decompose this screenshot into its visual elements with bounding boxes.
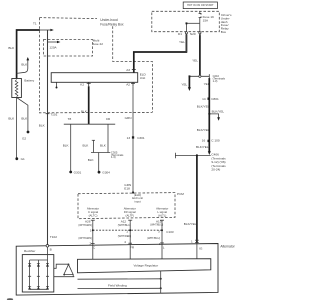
- svg-text:T101: T101: [50, 113, 57, 117]
- svg-text:Alternator: Alternator: [220, 245, 235, 249]
- svg-text:BLK: BLK: [63, 144, 70, 148]
- svg-text:IG: IG: [199, 247, 203, 251]
- svg-text:Rectifier: Rectifier: [24, 249, 35, 253]
- svg-text:1-3): 1-3): [213, 79, 218, 83]
- svg-text:G1: G1: [21, 157, 25, 161]
- svg-text:BLK/YEL: BLK/YEL: [184, 222, 197, 226]
- svg-text:16: 16: [202, 139, 206, 143]
- svg-text:(WHT/GRN): (WHT/GRN): [78, 224, 92, 227]
- svg-text:input: input: [135, 199, 141, 203]
- svg-text:G301: G301: [74, 170, 82, 174]
- svg-text:HOT IN ON OR START: HOT IN ON OR START: [187, 3, 214, 7]
- svg-text:Voltage Regulator: Voltage Regulator: [134, 263, 159, 267]
- svg-text:GRN: GRN: [125, 116, 132, 120]
- svg-text:N20: N20: [190, 32, 196, 36]
- svg-text:BLK/YEL: BLK/YEL: [197, 105, 210, 109]
- svg-text:T8: T8: [68, 117, 72, 121]
- svg-text:A2: A2: [126, 83, 130, 87]
- svg-text:BLK: BLK: [81, 109, 88, 113]
- svg-text:1: 1: [191, 239, 193, 243]
- svg-text:L: L: [163, 246, 165, 250]
- svg-text:T102: T102: [50, 235, 57, 239]
- svg-text:Field Winding: Field Winding: [108, 283, 127, 287]
- svg-text:G304: G304: [102, 171, 110, 175]
- svg-text:13: 13: [127, 136, 131, 140]
- svg-text:3: 3: [158, 229, 160, 233]
- svg-text:C301: C301: [137, 136, 145, 140]
- svg-text:(ALTC): (ALTC): [89, 213, 98, 217]
- svg-text:(WHT/GRN): (WHT/GRN): [78, 237, 92, 240]
- svg-text:(ALTF): (ALTF): [126, 213, 135, 217]
- svg-text:D1: D1: [178, 32, 182, 36]
- svg-text:C103: C103: [166, 230, 174, 234]
- svg-text:YEL: YEL: [181, 82, 187, 86]
- svg-text:Battery: Battery: [24, 79, 34, 83]
- svg-text:2: 2: [127, 229, 129, 233]
- svg-text:T1: T1: [33, 21, 37, 25]
- svg-text:BLK: BLK: [21, 117, 28, 121]
- svg-text:G2: G2: [22, 136, 26, 140]
- svg-text:(WHT/BLU): (WHT/BLU): [118, 224, 131, 227]
- svg-text:Box: Box: [221, 30, 227, 34]
- svg-text:C 100: C 100: [211, 139, 220, 143]
- svg-text:Unit: Unit: [140, 76, 146, 80]
- svg-text:BLK: BLK: [8, 117, 15, 121]
- svg-text:(WHT/BLU): (WHT/BLU): [150, 223, 163, 226]
- svg-text:120A: 120A: [49, 45, 57, 49]
- svg-text:PCM: PCM: [177, 192, 184, 196]
- svg-text:4: 4: [124, 240, 126, 244]
- svg-text:YEL: YEL: [192, 58, 198, 62]
- svg-text:1-3): 1-3): [111, 155, 116, 159]
- svg-text:YEL: YEL: [179, 40, 185, 44]
- svg-text:15A: 15A: [203, 18, 209, 22]
- svg-text:B: B: [50, 247, 52, 251]
- svg-text:BLK/YEL: BLK/YEL: [196, 145, 209, 149]
- svg-text:1: 1: [159, 242, 161, 246]
- svg-text:BLK: BLK: [88, 158, 95, 162]
- svg-text:A26: A26: [85, 219, 91, 223]
- svg-text:A12: A12: [121, 219, 127, 223]
- svg-text:K2: K2: [80, 83, 84, 87]
- svg-text:20-24): 20-24): [211, 168, 220, 172]
- svg-text:D6: D6: [106, 117, 110, 121]
- svg-text:BLK: BLK: [100, 144, 107, 148]
- svg-text:(WHT/RED): (WHT/RED): [118, 235, 131, 238]
- svg-text:C801: C801: [211, 97, 219, 101]
- svg-text:BLK/YEL: BLK/YEL: [197, 128, 210, 132]
- svg-text:BLK/YEL: BLK/YEL: [212, 109, 225, 113]
- svg-text:BLK: BLK: [21, 62, 28, 66]
- svg-text:BLK: BLK: [39, 124, 46, 128]
- svg-text:Fuse/Relay Box: Fuse/Relay Box: [100, 22, 124, 26]
- svg-text:BLK: BLK: [8, 46, 15, 50]
- svg-text:14: 14: [202, 97, 206, 101]
- svg-text:YEL: YEL: [204, 82, 210, 86]
- svg-text:(WHT/BLU): (WHT/BLU): [147, 237, 160, 240]
- svg-text:(ALTL): (ALTL): [158, 213, 166, 217]
- svg-text:A3: A3: [126, 68, 130, 72]
- svg-text:BLK: BLK: [83, 144, 90, 148]
- svg-text:E18: E18: [124, 187, 130, 191]
- svg-text:2: 2: [90, 241, 92, 245]
- svg-text:1: 1: [90, 229, 92, 233]
- svg-text:fuse 22: fuse 22: [93, 42, 103, 46]
